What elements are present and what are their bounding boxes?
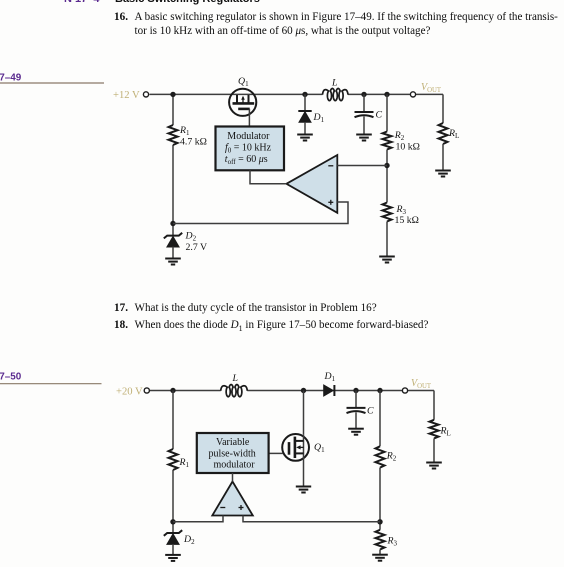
- svg-text:10 kΩ: 10 kΩ: [396, 142, 420, 153]
- svg-text:D1: D1: [313, 112, 325, 124]
- svg-text:2.7 V: 2.7 V: [186, 242, 208, 253]
- svg-text:f0 = 10 kHz: f0 = 10 kHz: [225, 142, 272, 154]
- svg-text:Q1: Q1: [238, 76, 249, 88]
- svg-text:R1: R1: [179, 125, 190, 137]
- svg-text:Variable: Variable: [216, 437, 250, 448]
- svg-text:VOUT: VOUT: [421, 82, 442, 94]
- svg-text:C: C: [367, 406, 374, 417]
- svg-text:4.7 kΩ: 4.7 kΩ: [180, 137, 207, 148]
- svg-text:modulator: modulator: [214, 459, 256, 470]
- svg-text:D2: D2: [185, 231, 197, 243]
- svg-text:17–50: 17–50: [0, 372, 22, 383]
- svg-text:C: C: [376, 110, 383, 121]
- svg-text:R2: R2: [386, 451, 397, 463]
- svg-text:pulse-width: pulse-width: [209, 448, 256, 459]
- svg-text:15 kΩ: 15 kΩ: [395, 215, 419, 226]
- svg-text:17–49: 17–49: [0, 73, 22, 84]
- svg-text:RL: RL: [448, 128, 459, 140]
- svg-text:R1: R1: [179, 457, 190, 469]
- svg-text:VOUT: VOUT: [411, 378, 432, 390]
- svg-text:D2: D2: [183, 534, 195, 546]
- svg-text:D1: D1: [324, 371, 336, 383]
- svg-text:+12 V: +12 V: [113, 90, 140, 101]
- svg-text:L: L: [232, 373, 238, 384]
- svg-text:+20 V: +20 V: [116, 387, 143, 398]
- svg-text:Modulator: Modulator: [227, 131, 270, 142]
- svg-text:R3: R3: [387, 536, 398, 548]
- svg-text:R2: R2: [394, 130, 405, 142]
- svg-text:RL: RL: [440, 426, 451, 438]
- svg-text:L: L: [331, 78, 337, 89]
- svg-text:Q1: Q1: [314, 442, 325, 454]
